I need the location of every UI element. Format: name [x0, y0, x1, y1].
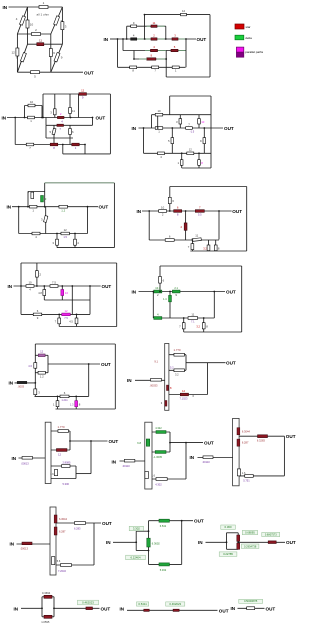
- svg-text:.00013: .00013: [20, 547, 28, 551]
- svg-text:1.3: 1.3: [70, 402, 74, 406]
- svg-text:12: 12: [64, 228, 68, 232]
- svg-text:3.2: 3.2: [203, 246, 207, 250]
- svg-text:0.5411: 0.5411: [138, 602, 147, 606]
- svg-text:OUT: OUT: [109, 439, 119, 444]
- svg-text:OUT: OUT: [102, 521, 112, 526]
- svg-text:1.6: 1.6: [50, 473, 54, 476]
- svg-text:0.22785: 0.22785: [223, 552, 233, 556]
- svg-text:12: 12: [189, 148, 193, 152]
- svg-text:12: 12: [64, 309, 68, 313]
- svg-text:3.2: 3.2: [175, 373, 179, 377]
- svg-text:1.2: 1.2: [40, 374, 44, 378]
- svg-text:10: 10: [30, 23, 34, 27]
- svg-text:12: 12: [182, 389, 186, 393]
- svg-text:1.6: 1.6: [152, 475, 156, 478]
- svg-text:OUT: OUT: [197, 37, 207, 42]
- svg-text:OUT: OUT: [286, 434, 296, 439]
- svg-text:4.302: 4.302: [155, 482, 162, 486]
- svg-text:IN: IN: [8, 284, 13, 289]
- svg-text:OUT: OUT: [99, 205, 109, 210]
- svg-text:.00110: .00110: [122, 464, 130, 468]
- svg-text:6.283: 6.283: [74, 527, 81, 531]
- svg-text:1.770: 1.770: [58, 425, 65, 429]
- svg-text:OUT: OUT: [266, 606, 276, 611]
- svg-text:6.541: 6.541: [160, 524, 167, 528]
- svg-text:IN: IN: [198, 540, 203, 545]
- svg-text:OUT: OUT: [84, 71, 94, 76]
- svg-text:7.1023: 7.1023: [180, 396, 188, 400]
- svg-text:4.322: 4.322: [155, 426, 162, 430]
- svg-text:6.3044: 6.3044: [59, 517, 67, 521]
- svg-text:11: 11: [153, 21, 156, 25]
- svg-text:all 1 ohm: all 1 ohm: [37, 13, 50, 17]
- svg-text:12: 12: [182, 9, 186, 13]
- svg-text:OUT: OUT: [194, 519, 204, 524]
- svg-text:1.211: 1.211: [61, 398, 68, 402]
- svg-text:IN: IN: [9, 381, 14, 386]
- svg-text:4.6: 4.6: [28, 364, 32, 368]
- svg-text:12: 12: [81, 89, 85, 93]
- svg-text:12: 12: [58, 452, 62, 456]
- svg-text:-1.0005: -1.0005: [153, 455, 162, 459]
- svg-text:2.8085: 2.8085: [63, 460, 71, 464]
- svg-text:OUT: OUT: [101, 362, 111, 367]
- svg-text:IN: IN: [231, 606, 236, 611]
- svg-text:11: 11: [191, 312, 194, 316]
- svg-text:6.3044: 6.3044: [242, 429, 250, 433]
- svg-text:10: 10: [30, 100, 34, 104]
- svg-text:10: 10: [28, 280, 32, 284]
- svg-text:5.6: 5.6: [57, 560, 61, 563]
- svg-text:OUT: OUT: [226, 289, 236, 294]
- svg-text:-1.5: -1.5: [190, 130, 195, 134]
- svg-text:6.3602: 6.3602: [152, 541, 160, 545]
- svg-text:OUT: OUT: [219, 609, 229, 614]
- svg-text:IN: IN: [112, 459, 117, 464]
- svg-text:12: 12: [12, 51, 16, 55]
- svg-text:7.5: 7.5: [64, 316, 68, 320]
- svg-text:9.1: 9.1: [154, 359, 158, 363]
- svg-text:10: 10: [65, 291, 69, 295]
- svg-text:6.287: 6.287: [59, 529, 66, 533]
- svg-text:1.5: 1.5: [63, 235, 67, 239]
- svg-text:OUT: OUT: [101, 606, 111, 611]
- svg-text:IN: IN: [2, 115, 7, 120]
- svg-text:5.332: 5.332: [160, 568, 167, 572]
- svg-text:IN: IN: [10, 542, 15, 547]
- svg-text:1.770: 1.770: [174, 348, 181, 352]
- svg-text:6.3283: 6.3283: [257, 438, 265, 442]
- svg-text:OUT: OUT: [286, 540, 296, 545]
- svg-text:IN: IN: [3, 5, 8, 10]
- svg-text:7.5: 7.5: [52, 280, 56, 284]
- svg-text:1.0595: 1.0595: [41, 620, 50, 624]
- svg-text:3.302: 3.302: [133, 527, 140, 531]
- svg-text:4.5: 4.5: [69, 320, 73, 324]
- svg-text:3.2: 3.2: [196, 324, 200, 328]
- svg-text:IN: IN: [132, 290, 137, 295]
- svg-text:0.360: 0.360: [225, 525, 232, 529]
- svg-text:OUT: OUT: [232, 209, 242, 214]
- svg-text:0.68095: 0.68095: [245, 531, 255, 535]
- svg-text:parallel paths: parallel paths: [245, 50, 263, 54]
- svg-text:IN: IN: [190, 455, 195, 460]
- svg-text:OUT: OUT: [204, 441, 214, 446]
- svg-text:1.2: 1.2: [61, 209, 65, 213]
- svg-text:0.2954738: 0.2954738: [244, 544, 257, 548]
- svg-text:delta: delta: [245, 36, 252, 40]
- svg-text:11: 11: [72, 109, 75, 113]
- svg-text:12: 12: [40, 350, 44, 354]
- svg-text:5.5: 5.5: [198, 213, 202, 217]
- svg-text:0.6807573: 0.6807573: [265, 534, 277, 537]
- svg-text:0.50000875: 0.50000875: [244, 600, 258, 603]
- svg-text:7.2032: 7.2032: [58, 569, 66, 573]
- svg-text:1.4: 1.4: [163, 297, 167, 301]
- svg-text:11: 11: [195, 234, 198, 238]
- svg-text:OUT: OUT: [102, 284, 112, 289]
- svg-text:5.2: 5.2: [170, 365, 174, 369]
- svg-text:IN: IN: [14, 606, 19, 611]
- svg-text:IN: IN: [132, 126, 137, 131]
- svg-text:.00013: .00013: [21, 461, 29, 465]
- svg-text:10: 10: [157, 109, 161, 113]
- svg-text:10: 10: [161, 205, 165, 209]
- svg-text:OUT: OUT: [224, 126, 234, 131]
- svg-text:0.462023: 0.462023: [82, 601, 94, 605]
- svg-text:2.1: 2.1: [174, 286, 178, 290]
- svg-text:6.22404: 6.22404: [130, 556, 141, 560]
- svg-text:10: 10: [201, 120, 205, 124]
- svg-text:11: 11: [39, 38, 42, 42]
- svg-text:5.751: 5.751: [243, 478, 250, 482]
- svg-text:0.3694: 0.3694: [42, 591, 51, 595]
- svg-text:6.8: 6.8: [137, 441, 141, 445]
- svg-text:7.1: 7.1: [191, 320, 195, 324]
- svg-text:OUT: OUT: [96, 115, 106, 120]
- svg-text:.0003: .0003: [18, 385, 25, 389]
- svg-text:6.287: 6.287: [242, 441, 249, 445]
- svg-text:IN: IN: [106, 540, 111, 545]
- svg-text:IN: IN: [137, 209, 142, 214]
- svg-text:IN: IN: [104, 37, 109, 42]
- svg-text:star: star: [246, 25, 251, 29]
- svg-text:.00110: .00110: [202, 460, 210, 464]
- svg-text:5.300: 5.300: [63, 482, 70, 486]
- svg-text:IN: IN: [127, 378, 132, 383]
- svg-text:IN: IN: [12, 456, 17, 461]
- svg-text:10.1: 10.1: [155, 286, 161, 290]
- svg-text:OUT: OUT: [226, 361, 236, 366]
- svg-text:.00033: .00033: [150, 384, 158, 388]
- svg-text:IN: IN: [120, 606, 125, 611]
- svg-text:IN: IN: [7, 205, 12, 210]
- svg-text:4.8: 4.8: [38, 291, 42, 295]
- svg-text:0.462023: 0.462023: [169, 602, 181, 606]
